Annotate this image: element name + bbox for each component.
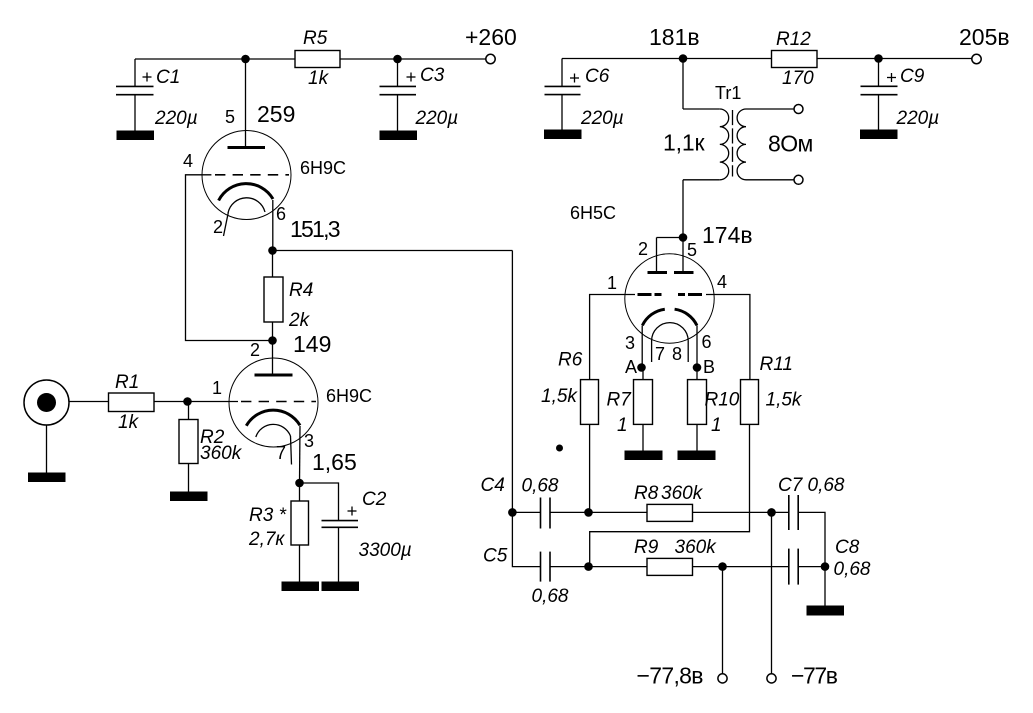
svg-text:C3: C3	[420, 65, 445, 86]
wire grid pin 1 to R6	[590, 295, 635, 380]
svg-text:0,68: 0,68	[808, 475, 845, 496]
svg-text:C7: C7	[778, 475, 804, 496]
svg-text:1k: 1k	[118, 412, 140, 433]
svg-text:2: 2	[250, 340, 260, 360]
svg-text:A: A	[625, 357, 637, 377]
resistor R3	[248, 483, 309, 582]
ground under C2	[322, 582, 360, 592]
capacitor C8	[789, 537, 871, 585]
node junction 149	[268, 336, 277, 345]
wire R9 to C8	[693, 566, 789, 568]
V2 anode plate	[255, 374, 293, 377]
resistor R12	[772, 29, 818, 89]
wire R1 to grid node	[154, 401, 188, 403]
capacitor C5	[532, 552, 569, 607]
svg-text:220µ: 220µ	[154, 108, 198, 129]
V1 grid (dashed)	[215, 174, 289, 176]
terminal -77,8в	[637, 662, 728, 688]
svg-text:3: 3	[625, 333, 635, 353]
svg-text:0,68: 0,68	[532, 586, 569, 607]
resistor R5	[295, 28, 340, 89]
svg-text:C1: C1	[156, 67, 180, 88]
svg-text:149: 149	[293, 331, 331, 357]
svg-text:360k: 360k	[661, 483, 704, 504]
resistor R1	[109, 372, 155, 433]
wire grid pin 4 to R11	[706, 295, 750, 380]
V3 anode plate right	[674, 271, 694, 274]
ground under R3	[282, 582, 320, 592]
terminal +260	[465, 24, 517, 64]
ground under R7	[625, 451, 663, 461]
V1 heater arc	[228, 198, 265, 213]
node -77,8в junction	[718, 562, 727, 571]
svg-text:1,65: 1,65	[312, 449, 357, 475]
capacitor C9	[861, 59, 940, 131]
node A junction	[637, 363, 646, 372]
node junction 174в	[679, 233, 688, 242]
wire C8 to ground	[824, 567, 826, 606]
svg-text:C2: C2	[362, 489, 387, 510]
V3 anode lead pin 5	[682, 238, 684, 272]
wire R8 to C7	[693, 511, 789, 513]
node input grid junction	[183, 397, 192, 406]
svg-text:2k: 2k	[288, 310, 311, 331]
wire transformer to V3 anodes	[682, 180, 684, 238]
svg-text:R4: R4	[289, 280, 313, 301]
ground under C6	[544, 130, 582, 140]
capacitor C2	[322, 489, 412, 582]
terminal secondary bottom	[794, 175, 803, 184]
tube V2 6H9C envelope	[229, 358, 318, 447]
V3 cathode right	[675, 309, 697, 325]
svg-text:7: 7	[276, 443, 286, 463]
tube V1 6H9C envelope	[202, 131, 291, 220]
svg-text:C5: C5	[483, 546, 508, 567]
svg-text:0,68: 0,68	[522, 476, 559, 497]
wire top-left +260 rail	[135, 58, 487, 60]
wire R4 to node 149	[272, 322, 274, 341]
svg-text:205в: 205в	[959, 24, 1010, 50]
svg-text:6H9C: 6H9C	[326, 386, 372, 406]
wire cathode node to C2	[300, 483, 339, 521]
svg-text:R8: R8	[634, 483, 659, 504]
svg-text:151,3: 151,3	[290, 216, 341, 242]
svg-text:6: 6	[702, 332, 712, 352]
wire anode link	[657, 237, 684, 239]
wire 181в node down to transformer	[682, 59, 684, 110]
V2 grid (dashed)	[241, 401, 316, 403]
svg-text:181в: 181в	[649, 24, 700, 50]
svg-text:5: 5	[225, 107, 235, 127]
wire node to R4	[272, 251, 274, 278]
V3 anode lead pin 2	[656, 238, 658, 272]
svg-text:1: 1	[617, 415, 628, 436]
ground under R10	[678, 451, 716, 461]
wire C8 right	[798, 566, 825, 568]
svg-text:R1: R1	[115, 372, 139, 393]
capacitor C1	[116, 59, 198, 131]
node R6 bottom junction	[584, 508, 593, 517]
svg-text:R11: R11	[760, 354, 793, 375]
svg-text:1,1к: 1,1к	[663, 130, 705, 156]
svg-text:360k: 360k	[200, 443, 243, 464]
svg-text:−77,8в: −77,8в	[637, 662, 704, 688]
resistor R8	[634, 483, 704, 521]
svg-text:C4: C4	[481, 475, 505, 496]
svg-text:1: 1	[711, 415, 722, 436]
V3 cathode left	[642, 309, 664, 325]
node cathode V2 junction	[295, 479, 304, 488]
wire feedback bus down	[512, 251, 540, 567]
terminal -77в	[767, 662, 838, 688]
wire to -77,8в terminal	[722, 567, 724, 674]
svg-text:4: 4	[717, 272, 727, 292]
capacitor C7	[778, 475, 845, 530]
svg-text:6H5C: 6H5C	[570, 203, 616, 223]
capacitor C3	[380, 59, 459, 131]
svg-text:2: 2	[638, 239, 648, 259]
tube V3 6H5C envelope	[625, 254, 714, 343]
wire to -77в terminal	[771, 512, 773, 673]
wire grid pin 1 to input node	[188, 401, 239, 403]
svg-text:2: 2	[213, 217, 223, 237]
svg-text:2,7к: 2,7к	[248, 529, 285, 550]
svg-text:+260: +260	[465, 24, 517, 50]
wire C5 to R9	[550, 566, 647, 568]
svg-text:8: 8	[672, 344, 682, 364]
svg-text:7: 7	[655, 344, 665, 364]
svg-text:220µ: 220µ	[896, 108, 940, 129]
svg-text:8Ом: 8Ом	[768, 131, 813, 157]
svg-text:5: 5	[687, 240, 697, 260]
V1 anode plate	[228, 146, 266, 149]
V3 anode plate left	[648, 271, 668, 274]
svg-text:C9: C9	[900, 66, 925, 87]
resistor R4	[264, 277, 313, 331]
svg-text:4: 4	[183, 151, 193, 171]
node junction 151,3	[268, 246, 277, 255]
svg-text:R5: R5	[303, 28, 328, 49]
ground under input	[28, 473, 66, 483]
svg-text:170: 170	[782, 68, 814, 89]
wire pin 4 feedback to node 149	[186, 175, 273, 341]
V2 heater arc	[256, 424, 291, 437]
svg-text:1: 1	[212, 378, 222, 398]
svg-text:3300µ: 3300µ	[359, 540, 412, 561]
svg-text:1k: 1k	[308, 68, 330, 89]
ground under C3	[380, 131, 418, 141]
svg-text:1,5k: 1,5k	[766, 390, 803, 411]
ground under C9	[860, 130, 898, 140]
svg-text:360k: 360k	[675, 537, 718, 558]
V3 grid dashes	[638, 293, 703, 296]
V2 cathode	[246, 410, 300, 426]
node R11 bottom junction	[584, 562, 593, 571]
V1 cathode	[219, 184, 273, 201]
node C9 junction	[874, 54, 883, 63]
V3 cathode lead B	[696, 325, 698, 367]
resistor R7	[607, 368, 653, 451]
footnote dot	[556, 445, 563, 452]
svg-text:R12: R12	[776, 29, 811, 50]
node C8 ground junction	[821, 562, 830, 571]
node C7 junction	[767, 508, 776, 517]
capacitor C4	[481, 475, 559, 529]
capacitor C6	[545, 59, 624, 131]
svg-text:B: B	[703, 357, 715, 377]
wire C4 to R8	[550, 511, 647, 513]
svg-text:0,68: 0,68	[834, 559, 871, 580]
ground under C8	[807, 606, 845, 616]
V1 cathode lead pin 6	[272, 200, 274, 251]
svg-text:1,5k: 1,5k	[541, 386, 578, 407]
svg-text:C8: C8	[835, 537, 860, 558]
wire input to R1	[69, 401, 109, 403]
resistor R9	[634, 537, 717, 575]
V1 heater lead pin 2	[224, 213, 229, 237]
resistor R6	[541, 350, 599, 513]
terminal 205в	[959, 24, 1010, 64]
node anode V1 / rail junction	[241, 55, 250, 64]
svg-text:6: 6	[276, 204, 286, 224]
ground under R2	[170, 492, 208, 502]
svg-text:−77в: −77в	[791, 662, 838, 688]
svg-text:220µ: 220µ	[415, 108, 459, 129]
resistor R10	[688, 368, 740, 451]
ground under C1	[117, 131, 155, 141]
svg-text:Tr1: Tr1	[715, 83, 741, 103]
svg-text:174в: 174в	[702, 222, 753, 248]
wire C4 line left	[512, 511, 540, 513]
V2 heater lead pin 7	[291, 436, 292, 465]
svg-text:1: 1	[607, 273, 617, 293]
V1 anode lead pin 5	[245, 59, 247, 146]
node junction 181в	[679, 54, 688, 63]
input connector	[24, 380, 69, 473]
svg-text:259: 259	[257, 101, 295, 127]
wire node to feedback bus	[273, 250, 513, 252]
svg-text:R7: R7	[607, 390, 633, 411]
V2 cathode lead pin 3	[299, 426, 302, 483]
terminal secondary top	[794, 105, 803, 114]
wire C7 right down	[798, 512, 825, 566]
V3 heater arc	[652, 323, 689, 362]
resistor R11	[590, 354, 803, 567]
transformer Tr1	[663, 83, 813, 180]
svg-text:R10: R10	[705, 390, 740, 411]
node C3 junction	[393, 55, 402, 64]
svg-text:R9: R9	[634, 537, 659, 558]
node B junction	[693, 363, 702, 372]
svg-text:R6: R6	[558, 350, 583, 371]
svg-text:3: 3	[304, 431, 314, 451]
svg-text:C6: C6	[585, 66, 610, 87]
V3 cathode lead A	[641, 325, 643, 367]
svg-text:6H9C: 6H9C	[300, 158, 346, 178]
wire top-right rail	[562, 58, 972, 60]
resistor R2	[179, 402, 243, 492]
svg-text:R3 *: R3 *	[249, 505, 287, 526]
svg-text:220µ: 220µ	[580, 108, 624, 129]
wire node 149 to V2 anode	[272, 341, 274, 375]
node C4 bus junction	[508, 508, 517, 517]
